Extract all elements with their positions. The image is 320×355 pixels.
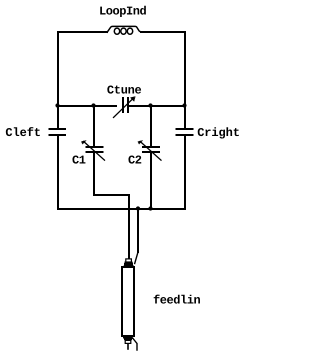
wire middle bus right	[129, 105, 185, 107]
capacitor C1	[82, 141, 105, 161]
wire C1 upper	[93, 106, 95, 146]
wire right vertical upper	[184, 32, 186, 128]
wire C1 lower	[93, 153, 95, 195]
capacitor Cleft	[50, 129, 66, 135]
connector pin box bottom	[125, 340, 131, 343]
capacitor Cright	[177, 129, 193, 135]
svg-text:Cright: Cright	[197, 126, 240, 140]
wire left vertical upper	[57, 32, 59, 128]
wire middle bus left	[58, 105, 116, 107]
wire top-left segment	[58, 31, 107, 33]
wire left vertical lower	[57, 136, 59, 209]
connector body top	[124, 262, 133, 267]
junction dot bus2-C1	[91, 103, 95, 107]
junction dot bus2-right	[182, 103, 186, 107]
wire bottom bus	[58, 208, 185, 210]
junction dot bus2-left	[55, 103, 59, 107]
wire right vertical lower	[184, 136, 186, 209]
capacitor C2	[138, 141, 161, 161]
wire bottom shield	[133, 339, 137, 351]
wire feed center vertical	[128, 195, 130, 258]
junction dot bus2-C2	[148, 103, 152, 107]
wire C2 upper	[150, 106, 152, 146]
wire shield slant to connector	[135, 252, 138, 264]
svg-text:LoopInd: LoopInd	[99, 5, 147, 19]
inductor LoopInd	[107, 26, 140, 34]
svg-text:C1: C1	[72, 154, 86, 168]
wire shield vertical	[137, 210, 139, 252]
connector pin box top	[126, 259, 132, 262]
coax body	[122, 267, 134, 336]
svg-text:Ctune: Ctune	[107, 83, 142, 97]
connector body bottom	[123, 336, 133, 340]
junction dot bus3-C2	[148, 206, 152, 210]
wire bottom center	[127, 344, 129, 349]
feedline coax feedlin	[122, 259, 137, 350]
wire C2 lower	[150, 153, 152, 209]
svg-text:feedlin: feedlin	[153, 294, 201, 308]
wire C1 horizontal to feed	[94, 194, 129, 196]
wire top-right segment	[141, 31, 185, 33]
capacitor Ctune	[114, 97, 136, 118]
junction dot bus3-shield	[136, 206, 140, 210]
svg-text:Cleft: Cleft	[5, 126, 41, 140]
svg-text:C2: C2	[128, 154, 142, 168]
